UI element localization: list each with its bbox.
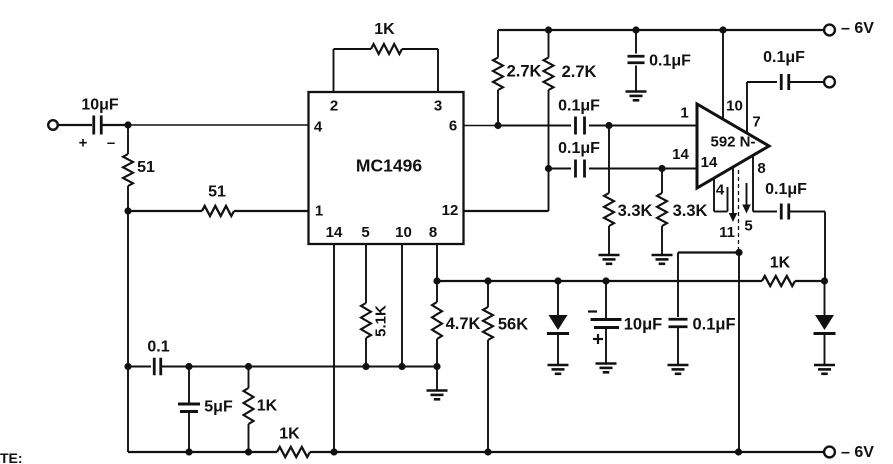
capacitor C7 0.1uF	[558, 98, 600, 135]
resistor R11 2.7K	[544, 30, 597, 211]
wire pin4 hook	[714, 178, 728, 212]
svg-text:3: 3	[434, 98, 442, 115]
node S	[545, 26, 552, 33]
wire pin10	[722, 30, 724, 120]
wire	[589, 125, 697, 127]
svg-text:10: 10	[395, 224, 412, 241]
node D	[185, 363, 192, 370]
svg-text:14: 14	[672, 146, 689, 163]
pin label 10	[395, 224, 412, 241]
svg-text:–: –	[107, 135, 115, 152]
svg-text:1K: 1K	[770, 255, 791, 272]
svg-text:1K: 1K	[374, 21, 395, 38]
pin label 14	[672, 146, 689, 163]
ground	[427, 391, 448, 400]
text note	[0, 450, 23, 464]
op-amp U2 592	[697, 104, 769, 188]
svg-text:5μF: 5μF	[204, 399, 233, 416]
wire pin10	[401, 244, 403, 367]
node X	[545, 165, 552, 172]
ground	[668, 365, 689, 374]
wire	[402, 48, 438, 50]
diode D2	[814, 281, 836, 365]
ground	[596, 364, 617, 373]
node I	[245, 448, 252, 455]
wire pin5	[365, 244, 367, 303]
wire	[161, 366, 189, 368]
wire	[738, 170, 740, 250]
wire	[310, 451, 825, 453]
ground	[626, 92, 647, 101]
resistor R10 2.7K	[493, 30, 542, 126]
node Y	[658, 165, 665, 172]
node L	[735, 448, 742, 455]
pin label 1	[680, 105, 688, 122]
resistor R2 51	[202, 184, 234, 217]
wire	[127, 186, 129, 211]
node U	[719, 26, 726, 33]
svg-text:0.1μF: 0.1μF	[558, 98, 600, 115]
ground	[814, 365, 835, 374]
svg-text:11: 11	[719, 224, 735, 241]
wire pin5	[742, 183, 751, 214]
svg-text:56K: 56K	[498, 316, 528, 334]
svg-text:0.1μF: 0.1μF	[765, 181, 807, 198]
svg-text:4: 4	[314, 119, 323, 136]
svg-text:1: 1	[315, 203, 323, 220]
svg-text:MC1496: MC1496	[356, 156, 422, 176]
pin label 12	[442, 202, 459, 219]
wire	[738, 253, 740, 453]
node N	[433, 363, 440, 370]
svg-text:8: 8	[757, 160, 765, 177]
pin label 5	[361, 224, 369, 241]
wire	[589, 168, 697, 170]
pin label 4	[314, 119, 323, 136]
svg-text:1K: 1K	[257, 398, 278, 415]
svg-text:5: 5	[361, 224, 369, 241]
node Q	[602, 277, 609, 284]
wire	[333, 49, 335, 92]
svg-text:5: 5	[744, 218, 752, 235]
svg-text:+: +	[79, 135, 88, 152]
wire pin11	[729, 167, 738, 222]
pin label 2	[330, 98, 338, 115]
wire	[334, 48, 372, 50]
wire	[234, 210, 309, 212]
svg-text:1K: 1K	[279, 426, 300, 443]
svg-text:10μF: 10μF	[81, 97, 119, 114]
wire	[549, 168, 572, 170]
node J	[330, 448, 337, 455]
terminal -6V top	[824, 20, 874, 37]
IC U1 MC1496	[309, 92, 464, 244]
capacitor C6 0.1uF	[628, 30, 692, 91]
node H	[185, 448, 192, 455]
resistor R5 1K	[277, 426, 310, 458]
capacitor C4 10uF	[588, 281, 662, 363]
node O	[484, 277, 491, 284]
svg-text:3.3K: 3.3K	[673, 202, 708, 220]
svg-text:– 6V: – 6V	[841, 20, 874, 37]
ground	[548, 365, 569, 374]
wire	[789, 212, 825, 282]
svg-text:0.1μF: 0.1μF	[692, 316, 735, 334]
capacitor C8 0.1uF	[558, 140, 600, 178]
wire	[249, 366, 437, 368]
wire	[128, 210, 202, 212]
resistor R8 56K	[483, 281, 528, 452]
node R	[821, 277, 828, 284]
resistor R13 3.3K	[657, 169, 708, 255]
wire	[789, 81, 825, 83]
wire	[128, 451, 277, 453]
svg-text:0.1μF: 0.1μF	[763, 49, 805, 66]
resistor R3 1K	[371, 21, 402, 54]
pin label 5	[744, 218, 752, 235]
input terminal J1	[48, 120, 58, 130]
resistor R12 3.3K	[604, 126, 653, 255]
svg-text:14: 14	[326, 224, 343, 241]
wire	[128, 366, 151, 368]
svg-text:– 6V: – 6V	[841, 444, 874, 461]
svg-text:14: 14	[701, 154, 718, 171]
resistor R1 51	[123, 154, 155, 186]
node P	[554, 277, 561, 284]
wire	[437, 49, 439, 92]
svg-text:51: 51	[208, 184, 226, 201]
wire	[464, 125, 499, 127]
pin label 14	[326, 224, 343, 241]
node M	[433, 277, 440, 284]
wire pin8	[753, 155, 777, 211]
wire	[498, 29, 825, 31]
resistor R4 1K	[244, 367, 278, 453]
capacitor C10 0.1uF	[765, 181, 807, 220]
node C	[124, 363, 131, 370]
capacitor C1 10uF	[79, 97, 119, 152]
node B	[124, 207, 131, 214]
wire	[795, 280, 825, 282]
pin label 8	[757, 160, 765, 177]
pin label 7	[752, 114, 760, 131]
svg-text:2.7K: 2.7K	[507, 63, 542, 81]
wire	[189, 366, 249, 368]
svg-text:51: 51	[137, 159, 155, 176]
pin label 10	[726, 98, 743, 115]
svg-text:0.1μF: 0.1μF	[649, 53, 691, 70]
wire pin7	[747, 82, 777, 133]
wire	[678, 251, 739, 253]
node A	[124, 121, 131, 128]
terminal -6V bottom	[824, 444, 874, 461]
svg-text:TE:: TE:	[0, 450, 23, 464]
svg-text:0.1: 0.1	[147, 339, 169, 356]
wire	[128, 124, 309, 126]
wire pin12	[464, 210, 549, 212]
svg-text:4: 4	[716, 182, 725, 199]
node E	[245, 363, 252, 370]
svg-text:10: 10	[726, 98, 743, 115]
pin label 1	[315, 203, 323, 220]
wire pin8	[436, 244, 438, 281]
node K	[484, 448, 491, 455]
svg-text:7: 7	[752, 114, 760, 131]
svg-text:10μF: 10μF	[624, 316, 663, 334]
pin label 4	[716, 182, 725, 199]
wire	[127, 366, 129, 452]
svg-text:1: 1	[680, 105, 688, 122]
svg-text:5.1K: 5.1K	[373, 305, 390, 337]
ground	[652, 255, 673, 264]
ground	[599, 255, 620, 264]
svg-text:4.7K: 4.7K	[446, 315, 481, 333]
capacitor C9 0.1uF	[763, 49, 805, 90]
wire	[127, 211, 129, 366]
svg-text:3.3K: 3.3K	[618, 202, 653, 220]
svg-text:0.1μF: 0.1μF	[558, 140, 600, 157]
resistor R9 1K	[762, 255, 795, 287]
wire	[498, 125, 571, 127]
svg-text:592 N-: 592 N-	[710, 134, 755, 151]
node G	[398, 363, 405, 370]
node W	[605, 122, 612, 129]
wire	[58, 124, 92, 126]
pin label 3	[434, 98, 442, 115]
node Z	[735, 249, 742, 256]
svg-text:6: 6	[449, 118, 457, 135]
wire	[127, 125, 129, 154]
wire	[437, 280, 762, 282]
svg-text:2.7K: 2.7K	[562, 63, 597, 81]
node V	[494, 122, 501, 129]
wire	[102, 124, 129, 126]
wire pin14	[333, 244, 335, 452]
node F	[362, 363, 369, 370]
capacitor C2 0.1	[147, 339, 169, 376]
node T	[632, 26, 639, 33]
terminal output	[824, 77, 835, 88]
wire	[436, 367, 438, 391]
svg-text:2: 2	[330, 98, 338, 115]
pin label 6	[449, 118, 457, 135]
pin label 11	[719, 224, 735, 241]
resistor R7 4.7K	[432, 281, 481, 367]
svg-text:8: 8	[429, 224, 437, 241]
capacitor C5 0.1uF	[669, 253, 736, 365]
pin label 8	[429, 224, 437, 241]
svg-text:12: 12	[442, 202, 459, 219]
resistor R6 5.1K	[361, 303, 390, 367]
capacitor C3 5uF	[178, 367, 233, 453]
diode D1	[547, 281, 569, 365]
